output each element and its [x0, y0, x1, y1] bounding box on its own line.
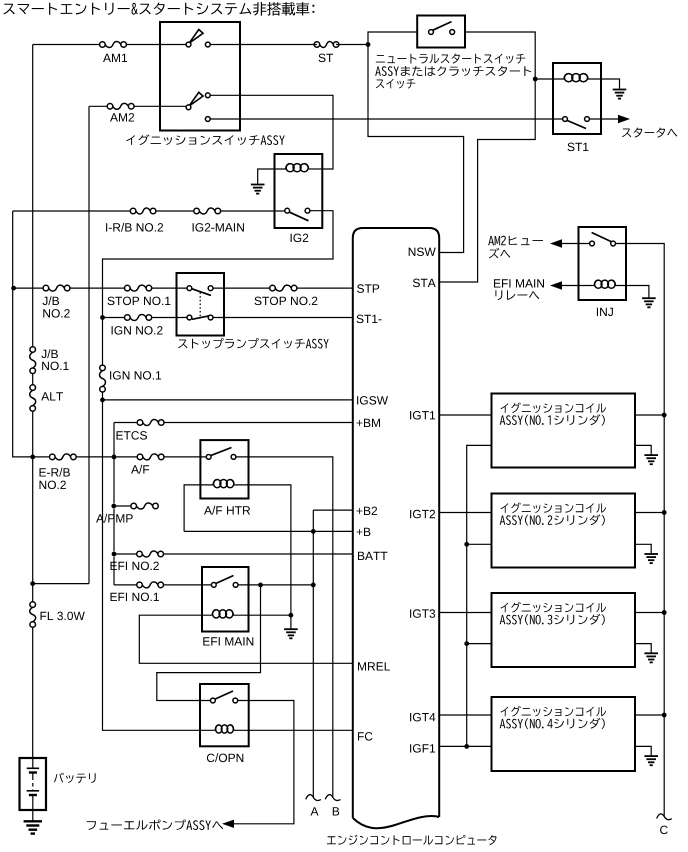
ignition coil assy no.2 box: [492, 494, 636, 568]
fuse ALT: [30, 385, 36, 411]
relay INJ box: [579, 227, 627, 300]
label E-R/B NO.2 line2: [40, 481, 66, 490]
label ignition switch assy: [126, 135, 284, 146]
ignition switch upper pole and contact: [186, 42, 210, 47]
ground at IG2 relay coil: [251, 185, 265, 194]
label connector A: [311, 807, 319, 815]
relay A/F HTR switch contacts: [206, 455, 236, 460]
label J/B NO.2 line2: [43, 309, 69, 318]
wire A/F HTR coil left to +B line: [184, 485, 213, 532]
label to EFI MAIN relay line1: [494, 279, 544, 287]
label ST: [319, 54, 334, 63]
coil of relay C/OPN: [215, 725, 233, 733]
label stop lamp switch assy: [178, 338, 329, 349]
rail fuse feeder x=114: [113, 457, 115, 585]
relay ST1 box: [553, 63, 601, 134]
label ECU pin IGSW: [357, 396, 388, 405]
arrow to fuel pump assy: [222, 820, 234, 828]
label EFI NO.2: [111, 562, 159, 571]
fuse IGN NO.1: [100, 365, 106, 392]
label ALT: [41, 392, 63, 400]
wire EFI MAIN coil left to ECU MREL pin: [139, 615, 352, 663]
coil of relay INJ: [594, 280, 615, 288]
wire EFI MAIN switch output to +B rail: [236, 584, 314, 586]
label EFI NO.1: [111, 593, 159, 602]
label ECU pin FC: [358, 732, 373, 741]
wire IGN NO.2 line to stop lamp switch lower contact: [103, 317, 190, 319]
label ECU pin STP: [357, 284, 379, 293]
label connector B: [333, 807, 339, 815]
label ECU pin ST1-: [357, 315, 382, 324]
label to fuel pump assy: [87, 820, 224, 831]
node EFI NO.2 junction: [112, 552, 117, 557]
label to AM2 fuse line1: [488, 236, 543, 246]
fuse A/F: [137, 454, 164, 460]
fuse EFI NO.1: [137, 582, 164, 588]
ECU engine control computer box: [353, 228, 439, 828]
connector A break symbol: [306, 795, 321, 801]
label J/B NO.1 line2: [42, 362, 68, 371]
relay IG2 switch contacts: [285, 208, 310, 213]
ignition switch assy box: [160, 22, 240, 131]
label ECU pin BATT: [358, 552, 387, 560]
ground at battery: [24, 821, 42, 833]
connector B break symbol: [325, 795, 340, 801]
wire EFI NO.1 line to EFI MAIN relay switch: [114, 584, 214, 586]
coil of relay A/F HTR: [213, 480, 234, 488]
wire ST fuse from ignition switch AM1 contact: [208, 44, 368, 46]
label ignition coil no.4 line2: [500, 718, 605, 729]
label connector C: [660, 826, 668, 835]
label ECU pin NSW: [409, 248, 436, 257]
label engine control computer: [327, 835, 497, 845]
wire C/OPN feed from EFI MAIN output: [157, 585, 261, 701]
wire STOP NO.2 line from stop lamp switch to ECU STP pin: [211, 287, 353, 289]
wire NSW net: ST fuse junction to ECU NSW pin: [368, 32, 464, 253]
wire coil no.3 ground: [635, 644, 651, 653]
relay EFI MAIN switch contacts: [211, 583, 238, 588]
wire +B2 branch to ECU: [313, 510, 353, 797]
label AM1: [103, 54, 127, 62]
node IGN NO.2 junction: [100, 315, 105, 320]
ground at ignition coil no.1: [644, 455, 658, 464]
fuse AM2: [107, 103, 134, 109]
label A/F HTR: [204, 506, 250, 515]
label ignition coil no.3 line1: [501, 602, 607, 613]
label ECU pin IGF1: [410, 744, 435, 753]
neutral start switch box: [417, 16, 465, 48]
label ECU pin MREL: [358, 662, 390, 670]
wire battery junction to AM2 rail: [33, 583, 89, 585]
label ECU pin IGT4: [410, 713, 435, 722]
battery box: [20, 758, 47, 810]
title note: smart entry & start system not equipped: [3, 2, 314, 16]
label A/PMP: [96, 514, 133, 523]
wire A/F HTR switch output to connector B: [234, 457, 333, 797]
relay ST1 switch lever: [567, 121, 586, 129]
wire IG2 coil left to ground: [258, 169, 286, 184]
relay ST1 switch contacts: [563, 117, 590, 122]
wire E-R/B NO.2 / A/F line: [33, 456, 209, 458]
label ETCS: [117, 431, 148, 440]
node coil no.4 bus junction: [662, 713, 667, 718]
relay C/OPN box: [200, 684, 249, 746]
fuse J/B NO.2: [43, 285, 70, 291]
label ECU pin IGT3: [410, 609, 435, 618]
stop lamp switch upper contacts: [187, 286, 213, 291]
node coil no.2 bus junction: [662, 510, 667, 515]
wire coil no.4 output to bus: [635, 714, 664, 716]
node +B junction: [311, 529, 316, 534]
label neutral start switch line1: [376, 54, 525, 64]
node EFI MAIN output junction 2: [311, 583, 316, 588]
wire ST1 coil to ground: [588, 79, 620, 89]
label INJ: [597, 308, 613, 316]
wire coil no.4 ground: [635, 746, 651, 755]
fuse FL 3.0W: [30, 602, 36, 628]
wire STA net: neutral switch output to ST1 coil and ECU STA pin: [439, 32, 535, 282]
coil of relay EFI MAIN: [212, 610, 233, 618]
relay A/F HTR box: [200, 440, 248, 498]
node ST1 coil junction: [533, 77, 538, 82]
wire +B line to ECU: [184, 530, 353, 532]
ignition coil assy no.3 box: [492, 593, 636, 667]
ground at ignition coil no.2: [644, 554, 658, 563]
label ignition coil no.4 line1: [501, 706, 607, 717]
wire EFI MAIN coil right to ground: [233, 615, 291, 628]
ignition switch upper lever blade: [189, 30, 203, 44]
label to starter: [622, 128, 677, 138]
fuse A/PMP: [131, 503, 158, 509]
label STOP NO.2: [255, 297, 318, 306]
wire I-R/B NO.2 rail and fuse line to IG2 relay switch: [13, 210, 288, 212]
wire C/OPN coil right to ECU FC pin: [234, 729, 353, 731]
fuse EFI NO.2: [137, 551, 164, 557]
rail left feeder x=12.7 (I-R/B to E-R/B): [13, 211, 33, 457]
wire coil no.2 feedback pin: [467, 543, 492, 545]
label ECU pin STA: [413, 279, 436, 288]
coil of relay ST1: [564, 74, 588, 82]
node coil no.1 bus junction: [662, 413, 667, 418]
wire coil no.3 feedback pin: [467, 643, 492, 645]
neutral start switch lever: [433, 22, 452, 31]
label AM2: [110, 113, 134, 121]
wire C/OPN switch output to fuel pump: [232, 701, 294, 824]
relay EFI MAIN box: [202, 567, 249, 632]
ignition switch lower pole: [186, 105, 191, 110]
wire IGT3 from ECU to coil no.3: [439, 612, 491, 614]
label STOP NO.1: [108, 297, 171, 306]
label I-R/B NO.2: [106, 223, 163, 232]
wire IGSW line to ECU: [103, 399, 353, 401]
label C/OPN: [207, 753, 243, 762]
fuse ST: [314, 42, 339, 48]
node ST fuse junction: [366, 42, 371, 47]
stop lamp switch lower lever: [192, 316, 211, 320]
stop lamp switch lower contacts: [187, 315, 213, 320]
ground at ignition coil no.3: [644, 653, 658, 662]
wire A/PMP stub: [114, 505, 134, 507]
node IGSW junction: [100, 398, 105, 403]
wire C/OPN coil left to IGSW rail: [103, 727, 216, 730]
wire ST1- line from stop lamp switch to ECU: [211, 317, 353, 319]
wire AM1 horizontal to ignition switch: [33, 44, 189, 46]
wire ETCS line to ECU +BM pin: [114, 423, 353, 457]
label to EFI MAIN relay line2: [495, 290, 539, 300]
label neutral start switch line2: [375, 66, 531, 76]
wire AM2 branch rail (x=89): [88, 106, 90, 583]
label battery: [54, 773, 96, 784]
label J/B NO.1 line1: [41, 349, 58, 358]
wire IGT4 from ECU to coil no.4: [439, 714, 491, 716]
label J/B NO.2 line1: [43, 296, 60, 305]
relay INJ switch contacts: [590, 241, 616, 246]
wire AM2 horizontal to ignition switch pole: [89, 105, 189, 107]
wire IG2 switch output to IGSW rail: [103, 211, 334, 728]
wire INJ switch to AM2 fuse (off page): [562, 243, 592, 245]
relay IG2 switch lever: [290, 212, 309, 221]
node ground junction of A/F HTR and EFI MAIN coils: [289, 613, 294, 618]
node feedback rail junction coil 2: [464, 542, 469, 547]
neutral start switch contacts: [429, 30, 455, 35]
relay C/OPN switch lever: [215, 691, 233, 699]
wire coil no.1 output to bus: [635, 414, 664, 416]
stop lamp switch linkage dashed line: [199, 292, 201, 316]
wire coil no.2 ground: [635, 544, 651, 553]
node feedback rail junction coil 3: [464, 641, 469, 646]
ground at ST1 coil: [613, 90, 627, 99]
label ECU pin +B: [357, 528, 371, 536]
node coil no.3 bus junction: [662, 610, 667, 615]
ground at ignition coil no.4: [644, 756, 658, 765]
label ignition coil no.2 line1: [501, 503, 607, 514]
relay C/OPN switch contacts: [211, 698, 238, 703]
wire EFI NO.2 / BATT line to ECU: [114, 553, 353, 555]
node FL junction: [30, 581, 35, 586]
node J/B NO.2 junction: [11, 286, 16, 291]
label A/F: [131, 465, 149, 474]
stop lamp switch upper lever: [192, 289, 211, 296]
label ignition coil no.1 line2: [500, 414, 605, 425]
fuse AM1: [100, 42, 127, 48]
label ignition coil no.1 line1: [501, 403, 607, 414]
fuse ETCS: [137, 420, 164, 426]
arrow to EFI MAIN relay: [550, 281, 562, 289]
wire INJ coil right to ground: [615, 286, 649, 298]
relay INJ switch lever: [592, 233, 612, 242]
wire ST contact line from ignition switch to ST1 switch: [208, 118, 565, 120]
wire IG2 contact to IG2 relay coil: [208, 95, 333, 169]
wire coil no.2 output to bus: [635, 512, 664, 514]
label IG2: [291, 234, 309, 243]
ignition switch lower lever blade: [189, 92, 203, 106]
wire IGT1 from ECU to coil no.1: [439, 414, 491, 416]
fuse IG2-MAIN: [194, 208, 221, 214]
wire AM1 feed rail (battery positive rail, x=33): [32, 45, 34, 759]
label neutral start switch line3: [376, 79, 415, 89]
label EFI MAIN: [203, 637, 253, 645]
label ECU pin +B2: [357, 507, 378, 515]
node EFI MAIN output junction 1: [258, 583, 263, 588]
label ECU pin IGT1: [410, 411, 435, 420]
wire ST1 coil feed: [535, 78, 564, 80]
wire coil no.3 output to bus: [635, 612, 664, 614]
battery cell plates: [27, 758, 39, 810]
fuse J/B NO.1: [30, 347, 36, 374]
label ignition coil no.3 line2: [500, 614, 605, 625]
wire IGF1 feedback rail: [439, 445, 491, 746]
label ignition coil no.2 line2: [500, 514, 605, 525]
ignition coil assy no.4 box: [492, 697, 636, 771]
label E-R/B NO.2 line1: [40, 468, 70, 477]
label to AM2 fuse line2: [489, 248, 510, 258]
wire A/F HTR coil right to ground rail: [234, 485, 291, 615]
ground at INJ relay coil: [642, 298, 656, 307]
node feedback rail junction coil 4: [464, 744, 469, 749]
fuse IGN NO.2: [125, 315, 152, 321]
arrow to starter: [618, 115, 630, 123]
wire J/B NO.2 and STOP NO.1 line to stop lamp switch: [14, 287, 190, 289]
fuse E-R/B NO.2: [50, 454, 77, 460]
ignition coil assy no.1 box: [492, 394, 636, 468]
wire battery negative to ground: [32, 810, 34, 821]
wire INJ coil left to EFI MAIN relay (off page): [562, 285, 594, 287]
fuse STOP NO.1: [125, 285, 152, 291]
arrow to AM2 fuse: [550, 239, 562, 247]
label ECU pin +BM: [357, 419, 380, 427]
node A/F rail junction: [112, 455, 117, 460]
node A/PMP junction: [111, 504, 116, 509]
ignition switch IG2 and ST contacts: [205, 93, 210, 122]
node E-R/B junction on AM1 rail: [30, 455, 35, 460]
fuse STOP NO.2: [270, 285, 297, 291]
relay EFI MAIN switch lever: [216, 576, 234, 584]
coil of relay IG2: [286, 164, 309, 172]
wire IG2 coil right inside box: [309, 168, 323, 170]
wire ST1 switch output to starter: [587, 118, 618, 120]
wire INJ switch right to ignition coil bus: [613, 244, 664, 817]
label IGN NO.2: [112, 326, 163, 335]
relay IG2 box: [275, 154, 323, 228]
wire coil no.1 ground: [635, 445, 651, 454]
wire IGT2 from ECU to coil no.2: [439, 512, 491, 514]
label ST1: [568, 143, 589, 152]
label IG2-MAIN: [193, 223, 244, 232]
stop lamp switch assy box: [177, 273, 225, 336]
ground at EFI MAIN relay coil: [284, 629, 298, 638]
relay A/F HTR switch lever: [211, 448, 232, 456]
fuse I-R/B NO.2: [130, 208, 156, 214]
label IGN NO.1: [110, 371, 161, 380]
label FL 3.0W: [41, 612, 85, 621]
label ECU pin IGT2: [410, 510, 435, 518]
connector C break symbol: [657, 814, 672, 820]
